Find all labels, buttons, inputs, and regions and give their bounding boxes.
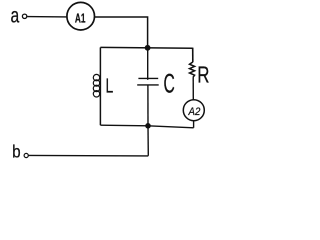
wire bottom rail right bbox=[148, 126, 194, 128]
terminal a (open circle) bbox=[22, 14, 26, 18]
svg-text:C: C bbox=[164, 68, 175, 99]
wire L branch vertical bbox=[99, 47, 101, 125]
terminal b (open circle) bbox=[24, 153, 28, 157]
node N1 (junction dot) bbox=[145, 45, 151, 51]
wire top rail bbox=[100, 46, 192, 49]
ammeter A2 bbox=[183, 100, 204, 121]
node N2 (junction dot) bbox=[145, 123, 151, 129]
wire b rail bbox=[28, 154, 148, 157]
svg-text:R: R bbox=[197, 62, 209, 88]
wire A2 down to bottom rail bbox=[193, 121, 195, 128]
wire R branch vertical from top rail bbox=[192, 48, 194, 63]
svg-text:b: b bbox=[12, 141, 21, 161]
wire a to A1 bbox=[27, 16, 67, 18]
wire capacitor down to node N2 bbox=[147, 85, 149, 126]
wire node N2 down bbox=[147, 126, 149, 156]
wire node N1 down to capacitor bbox=[147, 48, 149, 80]
wire bottom rail left bbox=[100, 124, 148, 127]
svg-text:L: L bbox=[106, 74, 114, 97]
resistor R (zigzag) bbox=[190, 62, 195, 77]
wire resistor to A2 bbox=[192, 77, 194, 100]
ammeter A1 bbox=[67, 2, 95, 30]
capacitor C bbox=[138, 77, 158, 79]
svg-text:A2: A2 bbox=[188, 107, 201, 119]
svg-text:A1: A1 bbox=[75, 12, 86, 26]
wire A1 to top corner, down to node N1 bbox=[94, 17, 147, 48]
svg-text:a: a bbox=[11, 3, 20, 27]
inductor L (coil) bbox=[93, 74, 99, 97]
